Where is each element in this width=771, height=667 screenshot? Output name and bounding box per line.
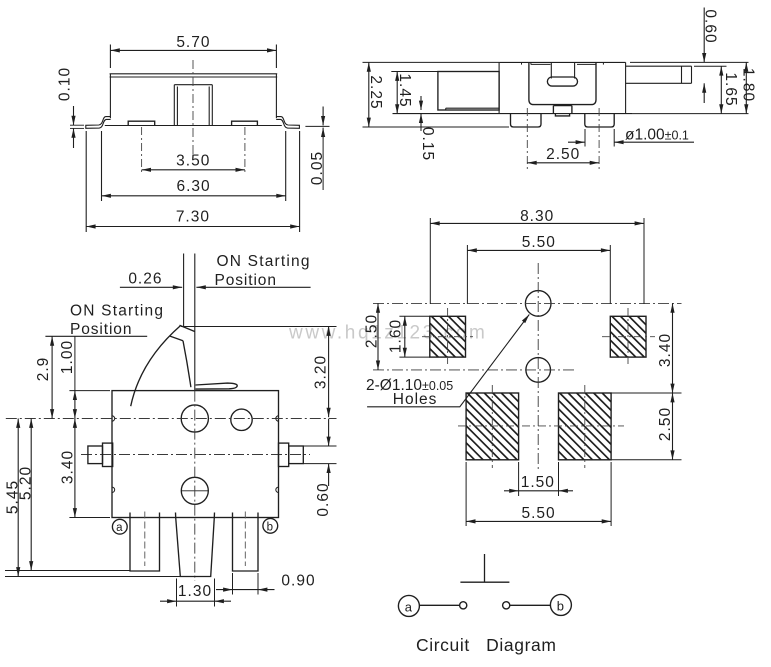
svg-text:0.60: 0.60 [315, 482, 332, 516]
svg-text:b: b [557, 599, 565, 614]
svg-text:Circuit Diagram: Circuit Diagram [416, 635, 557, 655]
svg-text:0.26: 0.26 [128, 270, 162, 287]
svg-text:3.20: 3.20 [313, 355, 330, 389]
svg-text:3.40: 3.40 [657, 333, 674, 367]
svg-text:0.15: 0.15 [419, 127, 436, 161]
svg-text:0.05: 0.05 [309, 151, 326, 185]
svg-text:ON Starting: ON Starting [217, 253, 311, 270]
svg-text:7.30: 7.30 [176, 209, 210, 226]
svg-text:1.50: 1.50 [521, 474, 555, 491]
svg-text:0.90: 0.90 [281, 573, 315, 590]
svg-text:Position: Position [70, 321, 132, 338]
svg-text:2.50: 2.50 [657, 407, 674, 441]
svg-text:2.50: 2.50 [546, 146, 580, 163]
svg-text:3.40: 3.40 [60, 450, 77, 484]
svg-text:5.50: 5.50 [522, 234, 556, 251]
svg-text:1.65: 1.65 [722, 72, 739, 106]
svg-text:ø1.00±0.1: ø1.00±0.1 [625, 127, 689, 144]
svg-text:5.50: 5.50 [522, 505, 556, 522]
svg-text:0.60: 0.60 [702, 9, 719, 43]
svg-text:2.9: 2.9 [35, 357, 52, 382]
svg-text:2.25: 2.25 [367, 75, 384, 109]
svg-text:5.70: 5.70 [176, 34, 210, 51]
svg-text:1.00: 1.00 [59, 340, 76, 374]
svg-text:2.50: 2.50 [364, 314, 381, 348]
svg-text:a: a [405, 600, 413, 615]
svg-text:1.30: 1.30 [178, 583, 212, 600]
svg-text:b: b [267, 521, 274, 533]
svg-text:Holes: Holes [393, 391, 438, 408]
svg-text:8.30: 8.30 [520, 208, 554, 225]
svg-text:5.45: 5.45 [5, 480, 22, 514]
svg-text:1.60: 1.60 [388, 319, 405, 353]
svg-text:ON Starting: ON Starting [70, 303, 164, 320]
svg-text:1.45: 1.45 [396, 73, 413, 107]
svg-text:1.80: 1.80 [740, 68, 757, 102]
svg-text:Position: Position [215, 272, 277, 289]
svg-text:3.50: 3.50 [176, 152, 210, 169]
svg-text:a: a [116, 522, 123, 534]
svg-text:6.30: 6.30 [177, 178, 211, 195]
svg-text:0.10: 0.10 [57, 67, 74, 101]
